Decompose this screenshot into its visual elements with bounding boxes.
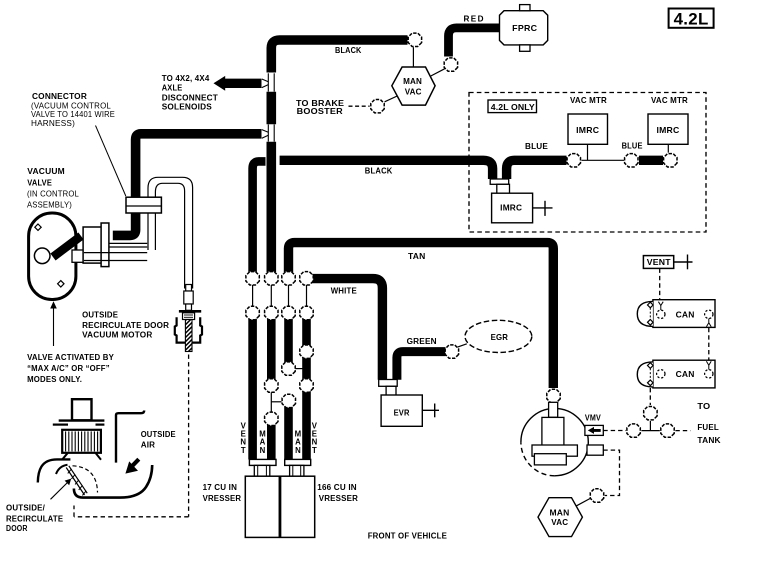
svg-text:T: T <box>241 446 246 455</box>
component EGR valve ellipse <box>465 320 532 352</box>
wire tick IMRC2 to connector <box>667 144 669 152</box>
svg-text:EGR: EGR <box>491 332 509 342</box>
wire thin line between BLUE connectors <box>582 159 625 161</box>
component vacuum valve capsule (control assembly) <box>29 213 76 300</box>
svg-text:MAN: MAN <box>403 76 422 86</box>
wire pointer line to connector <box>96 126 126 197</box>
component IMRC connector steps <box>490 179 509 184</box>
wire thin link line2 connectors <box>270 385 272 419</box>
svg-text:CAN: CAN <box>676 310 695 320</box>
node BLUE connector 1 <box>567 154 580 167</box>
wire tick IMRC1 to hose <box>587 144 589 160</box>
component IMRC actuator 2 <box>648 114 688 144</box>
svg-text:AXLE: AXLE <box>162 83 183 93</box>
wire outline tube arch to vacuum motor <box>148 177 193 288</box>
node circle red hose end <box>444 58 457 71</box>
component black flow arrow <box>132 459 139 466</box>
svg-text:TO: TO <box>697 401 710 411</box>
svg-text:VAC: VAC <box>551 517 568 527</box>
component 166 cu in dresser <box>281 476 315 537</box>
component HVAC right wall <box>116 411 144 463</box>
svg-text:TANK: TANK <box>697 435 721 445</box>
node green hose connector at EGR <box>445 345 458 358</box>
component CAN canister 1 <box>653 300 715 328</box>
component 17 cu in dresser <box>245 476 279 537</box>
svg-text:RED: RED <box>464 14 485 23</box>
wire dashed canister1 to canister2 <box>708 328 710 360</box>
wire main vertical hose segment below axle junction <box>266 92 276 124</box>
component HVAC floor bowl <box>74 465 152 498</box>
node connector near MAN VAC bottom <box>590 489 603 502</box>
svg-text:VACUUM: VACUUM <box>27 166 65 176</box>
wire pointer arrow to door <box>51 482 69 499</box>
node connector TAN hose to VMV <box>547 389 560 402</box>
node manifold row A connectors <box>246 272 259 285</box>
svg-text:FUEL: FUEL <box>697 422 719 432</box>
component VMV inlet stub <box>549 402 558 417</box>
wire dashed door swing arc <box>73 466 98 493</box>
node line4 connectors <box>300 345 313 358</box>
svg-text:17 CU IN: 17 CU IN <box>203 482 238 492</box>
wire manifold line2 segments <box>267 317 276 382</box>
svg-text:OUTSIDE: OUTSIDE <box>141 429 176 439</box>
svg-text:TAN: TAN <box>408 251 426 261</box>
wire dashed to brake booster <box>349 105 370 107</box>
wire BLUE hose right leg from IMRC connector <box>507 160 567 179</box>
wire link hex to brake circle <box>385 96 398 102</box>
svg-text:CAN: CAN <box>676 369 695 379</box>
wire BLACK hose long run to IMRC <box>280 160 493 179</box>
wire BLACK hose top (main vacuum line) <box>271 40 407 73</box>
svg-text:VACUUM MOTOR: VACUUM MOTOR <box>82 330 153 340</box>
svg-text:VMV: VMV <box>585 413 601 422</box>
node tee center connector <box>644 407 657 420</box>
node plus terminator VENT <box>674 261 693 263</box>
svg-text:VRESSER: VRESSER <box>203 493 242 503</box>
node plus terminator EVR <box>422 409 439 411</box>
svg-text:BLACK: BLACK <box>365 166 393 176</box>
wire WHITE hose to EVR <box>311 279 382 380</box>
wire manifold line1 lower <box>248 317 257 460</box>
svg-text:FRONT OF VEHICLE: FRONT OF VEHICLE <box>368 531 447 541</box>
component manifold port 2 <box>290 465 304 476</box>
svg-text:DOOR: DOOR <box>6 523 28 533</box>
component HVAC grille <box>62 430 101 453</box>
component EVR solenoid box <box>381 395 422 426</box>
svg-text:T: T <box>312 446 317 455</box>
wire dashed VMV lower port to MAN VAC connector <box>603 450 619 495</box>
svg-text:N: N <box>295 446 301 455</box>
svg-text:OUTSIDE/: OUTSIDE/ <box>6 503 45 513</box>
component valve flange <box>101 223 109 267</box>
wire black stub into valve <box>53 236 81 257</box>
svg-text:IMRC: IMRC <box>576 126 599 135</box>
component wire-harness connector <box>126 197 161 213</box>
component HVAC mouth flares <box>62 453 68 460</box>
boundary dashed box 4.2L only <box>469 93 706 233</box>
svg-text:VAC MTR: VAC MTR <box>651 96 688 105</box>
node junction to axle solenoids <box>267 73 269 91</box>
svg-text:4.2L ONLY: 4.2L ONLY <box>491 103 535 112</box>
component EVR connector steps <box>379 380 398 387</box>
wire RED hose to FPRC <box>449 28 500 57</box>
svg-text:(IN CONTROL: (IN CONTROL <box>27 188 79 198</box>
wire dashed route motor to plenum <box>188 355 190 517</box>
svg-text:WHITE: WHITE <box>331 285 357 295</box>
wire link hex to red circle <box>431 69 445 76</box>
wire branch line3 to line4 <box>294 368 303 370</box>
wire hose hook to manifold line 1 <box>253 161 266 272</box>
wire manifold line3 segments <box>284 317 293 365</box>
node manifold row B connectors <box>246 306 259 319</box>
svg-text:EVR: EVR <box>394 407 410 417</box>
svg-text:N: N <box>260 446 266 455</box>
wire link EGR circle to ellipse <box>457 344 467 347</box>
component manifold cap bar 2 <box>285 459 311 465</box>
svg-text:FPRC: FPRC <box>512 24 537 33</box>
component HVAC left lip <box>38 459 71 482</box>
component FPRC fuel pressure regulator <box>500 11 548 45</box>
svg-text:RECIRCULATE DOOR: RECIRCULATE DOOR <box>82 320 170 330</box>
component VENT box <box>643 256 673 269</box>
svg-text:BLACK: BLACK <box>335 45 362 55</box>
node tee right connector <box>661 424 674 437</box>
svg-text:IMRC: IMRC <box>500 203 522 212</box>
wire dashed canister2 to tee <box>649 388 651 405</box>
wire dashed VMV to fuel tank tee <box>603 430 626 432</box>
component 4.2L title box <box>669 9 714 28</box>
wire GREEN hose EGR to EVR <box>397 352 446 380</box>
svg-text:VAC MTR: VAC MTR <box>570 96 607 105</box>
wire hose to vacuum control valve <box>113 134 262 236</box>
svg-text:166 CU IN: 166 CU IN <box>317 482 357 492</box>
component MAN VAC hexagon bottom <box>538 498 582 537</box>
component valve lower port <box>72 250 84 262</box>
component MAN VAC hexagon top <box>392 67 435 105</box>
svg-text:BLUE: BLUE <box>622 140 643 150</box>
wire branch line2 to line3 connector <box>271 401 281 403</box>
svg-text:VAC: VAC <box>405 86 422 96</box>
wire arrow valve activated pointer <box>53 306 55 347</box>
node line3 connectors <box>282 362 295 375</box>
component manifold cap bar 1 <box>249 459 276 465</box>
wire main vertical hose to manifold <box>266 142 276 272</box>
svg-text:4.2L: 4.2L <box>674 10 709 28</box>
wire outline tube A from valve <box>109 242 147 244</box>
component recirculate door vacuum motor <box>186 285 192 292</box>
component VMV body circle <box>521 408 588 475</box>
wire dashed tee to fuel tank <box>675 430 690 432</box>
component IMRC actuator 3 <box>492 193 533 223</box>
svg-text:VALVE: VALVE <box>27 177 52 187</box>
node BLUE connector 3 <box>664 154 677 167</box>
wire link top circle to MAN VAC hex <box>412 47 414 67</box>
svg-text:GREEN: GREEN <box>407 336 437 346</box>
svg-text:RECIRCULATE: RECIRCULATE <box>6 513 63 523</box>
wire outline tube B from port <box>84 252 147 254</box>
component VMV lower port <box>587 445 603 455</box>
svg-text:MAN: MAN <box>550 508 570 518</box>
component manifold port 1 <box>254 465 269 476</box>
component VMV side port with arrow <box>585 425 603 435</box>
svg-text:SOLENOIDS: SOLENOIDS <box>162 102 212 112</box>
node plus terminator IMRC3 <box>533 207 553 209</box>
node line2 connectors <box>265 379 278 392</box>
svg-text:IMRC: IMRC <box>657 126 680 135</box>
wire TAN hose manifold line3 to VMV <box>289 243 554 388</box>
wire BLUE hose between connectors <box>639 156 663 165</box>
svg-text:HARNESS): HARNESS) <box>31 118 75 128</box>
wire hose to 4x2/4x4 axle disconnect solenoids <box>225 79 262 88</box>
component HVAC roof line <box>59 419 105 421</box>
node junction to control valve hose <box>267 124 269 141</box>
svg-text:MODES ONLY.: MODES ONLY. <box>27 374 82 384</box>
component valve body <box>83 227 102 263</box>
svg-text:VALVE ACTIVATED BY: VALVE ACTIVATED BY <box>27 352 114 362</box>
wire thin links rows A-B of manifold <box>252 278 254 313</box>
wire link connector to MAN VAC hex bottom <box>577 498 591 505</box>
svg-text:VENT: VENT <box>647 258 671 267</box>
svg-text:OUTSIDE: OUTSIDE <box>82 310 118 320</box>
svg-text:VRESSER: VRESSER <box>319 493 359 503</box>
wire tee stem and bar <box>649 421 651 431</box>
svg-text:ASSEMBLY): ASSEMBLY) <box>27 199 72 209</box>
component VMV pedestal <box>542 417 564 446</box>
component recirculate door <box>66 468 84 496</box>
svg-text:BOOSTER: BOOSTER <box>297 106 344 116</box>
node circle top of MAN VAC <box>408 33 421 46</box>
wire manifold line4 <box>302 317 311 460</box>
svg-text:“MAX A/C” OR “OFF”: “MAX A/C” OR “OFF” <box>27 363 110 373</box>
node circle brake booster <box>371 100 384 113</box>
component CAN canister 2 <box>653 360 715 388</box>
node BLUE connector 2 <box>625 154 638 167</box>
svg-text:BLUE: BLUE <box>525 141 548 151</box>
component IMRC actuator 1 <box>568 114 608 144</box>
wire dashed VENT to canister 1 <box>659 269 661 300</box>
component HVAC plenum top box <box>72 399 92 420</box>
component 4.2L ONLY label box <box>488 100 537 113</box>
node tee left connector to VMV <box>627 424 640 437</box>
svg-text:AIR: AIR <box>141 439 156 449</box>
